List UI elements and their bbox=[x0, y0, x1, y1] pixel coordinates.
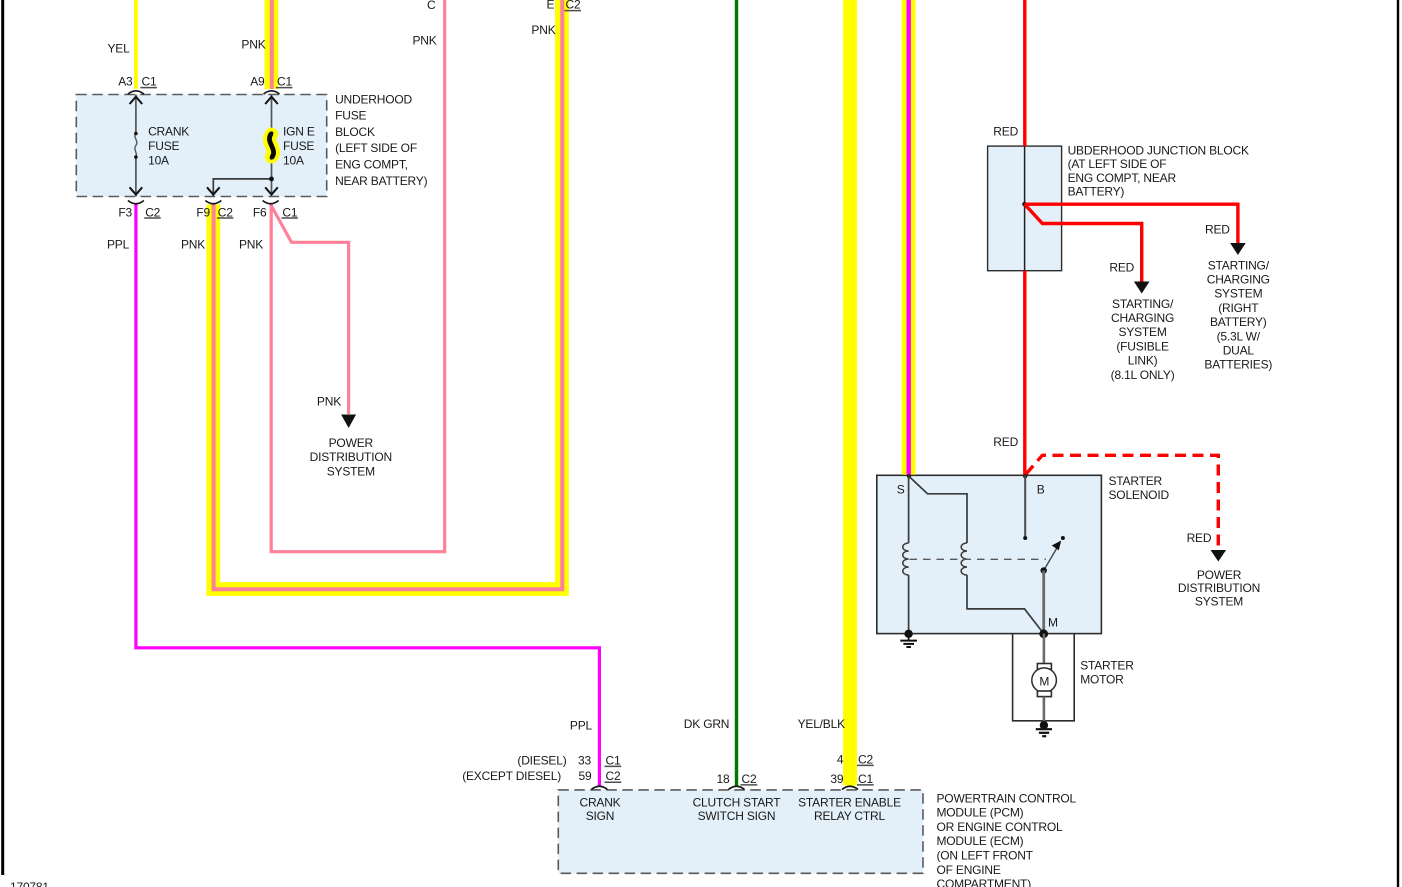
starter solenoid box bbox=[877, 475, 1102, 633]
svg-text:S: S bbox=[897, 482, 905, 496]
svg-text:PPL: PPL bbox=[107, 238, 130, 252]
solenoid switch pivot dot bbox=[1041, 567, 1047, 573]
svg-text:C2: C2 bbox=[742, 772, 757, 786]
svg-text:10A: 10A bbox=[148, 153, 169, 167]
svg-text:POWERTRAIN CONTROL: POWERTRAIN CONTROL bbox=[937, 791, 1077, 805]
svg-text:DK GRN: DK GRN bbox=[684, 717, 729, 731]
svg-text:C1: C1 bbox=[606, 753, 621, 767]
svg-text:(EXCEPT DIESEL): (EXCEPT DIESEL) bbox=[462, 769, 561, 783]
solenoid coil 2 wire to M bbox=[967, 575, 1044, 634]
wire PNK from F6 looping to top connector C bbox=[271, 0, 445, 552]
svg-text:SWITCH SIGN: SWITCH SIGN bbox=[698, 809, 776, 823]
svg-text:ENG COMPT, NEAR: ENG COMPT, NEAR bbox=[1068, 171, 1177, 185]
wire PNK from F6 to power distribution system bbox=[271, 205, 349, 414]
svg-text:COMPARTMENT): COMPARTMENT) bbox=[937, 877, 1032, 887]
svg-text:CHARGING: CHARGING bbox=[1207, 273, 1270, 287]
svg-text:F9: F9 bbox=[196, 205, 210, 219]
svg-text:STARTING/: STARTING/ bbox=[1112, 297, 1174, 311]
fuse IGN E bold fuse S-curve bbox=[269, 133, 273, 158]
wire RED branch to starting/charging system fusible link bbox=[1025, 204, 1142, 281]
fuse F3 arrow down bbox=[130, 187, 143, 194]
svg-text:STARTING/: STARTING/ bbox=[1208, 258, 1270, 272]
svg-text:A9: A9 bbox=[250, 75, 265, 89]
wire PNK highlighted from F9 looping to top (yellow highlight band) bbox=[213, 0, 562, 589]
wire PNK core from F9 looping to top bbox=[214, 0, 563, 589]
svg-text:F3: F3 bbox=[118, 205, 132, 219]
underline C1 A9 bbox=[276, 87, 293, 89]
svg-text:B: B bbox=[1037, 482, 1045, 496]
svg-text:MODULE (PCM): MODULE (PCM) bbox=[937, 806, 1024, 820]
solenoid coil 2 bbox=[961, 543, 967, 575]
solenoid coil 1 bbox=[903, 543, 909, 575]
svg-text:IGN E: IGN E bbox=[283, 125, 315, 139]
svg-text:F6: F6 bbox=[253, 205, 267, 219]
starter motor brush bottom bbox=[1037, 691, 1051, 697]
svg-text:(FUSIBLE: (FUSIBLE bbox=[1116, 339, 1169, 353]
svg-text:NEAR BATTERY): NEAR BATTERY) bbox=[335, 174, 428, 188]
fuse IGN E arrow down bbox=[265, 187, 278, 194]
junction nub at solenoid B terminal bbox=[1023, 474, 1027, 478]
svg-text:BATTERIES): BATTERIES) bbox=[1204, 358, 1272, 372]
branch arrow down at F9 bbox=[207, 187, 220, 194]
svg-text:STARTER ENABLE: STARTER ENABLE bbox=[798, 796, 901, 810]
solenoid mechanical linkage dashed line bbox=[910, 558, 1047, 560]
svg-text:MODULE (ECM): MODULE (ECM) bbox=[937, 834, 1024, 848]
svg-text:FUSE: FUSE bbox=[283, 139, 314, 153]
svg-text:ENG COMPT,: ENG COMPT, bbox=[335, 158, 408, 172]
svg-text:OR ENGINE CONTROL: OR ENGINE CONTROL bbox=[937, 820, 1063, 834]
connector cup F9 bbox=[205, 201, 221, 204]
svg-text:170781: 170781 bbox=[10, 880, 49, 887]
wire PPL core to starter solenoid S bbox=[907, 0, 911, 475]
starter motor brush top bbox=[1037, 664, 1051, 670]
starter motor feed wire bbox=[1043, 634, 1046, 664]
svg-text:LINK): LINK) bbox=[1128, 354, 1158, 368]
svg-text:C1: C1 bbox=[858, 772, 873, 786]
connector cap PCM starter enable pin 39 bbox=[842, 786, 858, 789]
connector cup F3 bbox=[128, 201, 144, 204]
fuse IGN E highlighted fuse symbol yellow halo bbox=[270, 134, 274, 157]
wire RED dashed branch to power distribution system bbox=[1026, 455, 1218, 550]
svg-text:C2: C2 bbox=[145, 205, 160, 219]
svg-text:RED: RED bbox=[1109, 261, 1134, 275]
svg-text:C2: C2 bbox=[606, 769, 621, 783]
svg-text:RELAY CTRL: RELAY CTRL bbox=[814, 809, 885, 823]
fuse IGN E element stem and arrows bbox=[271, 95, 273, 197]
underline C2 top bbox=[565, 10, 582, 12]
underhood fuse block box bbox=[76, 95, 326, 197]
svg-text:18: 18 bbox=[717, 772, 730, 786]
svg-text:RED: RED bbox=[1205, 223, 1230, 237]
svg-text:RED: RED bbox=[993, 435, 1018, 449]
svg-text:RED: RED bbox=[1187, 531, 1212, 545]
junction dot in junction block bbox=[1022, 202, 1027, 207]
solenoid coil 1 to ground bbox=[908, 575, 910, 634]
PCM module box bbox=[558, 790, 923, 873]
internal branch wire from IGN E fuse to F9 bbox=[213, 179, 271, 197]
svg-text:SYSTEM: SYSTEM bbox=[327, 464, 375, 478]
arrow to power distribution system (red) bbox=[1211, 550, 1227, 562]
svg-text:POWER: POWER bbox=[329, 436, 374, 450]
svg-text:FUSE: FUSE bbox=[148, 139, 179, 153]
wire RED from junction block to starter solenoid B bbox=[1023, 271, 1026, 475]
svg-text:RED: RED bbox=[993, 125, 1018, 139]
svg-text:CRANK: CRANK bbox=[579, 796, 620, 810]
wire YEL/BLK highlighted to PCM starter enable relay ctrl bbox=[843, 0, 857, 786]
svg-text:UNDERHOOD: UNDERHOOD bbox=[335, 92, 412, 106]
svg-text:PNK: PNK bbox=[181, 238, 205, 252]
svg-text:UBDERHOOD JUNCTION BLOCK: UBDERHOOD JUNCTION BLOCK bbox=[1068, 144, 1249, 158]
svg-text:4: 4 bbox=[837, 752, 844, 766]
svg-text:C2: C2 bbox=[858, 752, 873, 766]
svg-text:DISTRIBUTION: DISTRIBUTION bbox=[310, 450, 392, 464]
underhood junction block box bbox=[988, 146, 1062, 271]
solenoid M wire bbox=[1042, 571, 1045, 634]
underline C1 A3 bbox=[140, 87, 157, 89]
starter motor ground dot bbox=[1040, 721, 1048, 729]
svg-text:(RIGHT: (RIGHT bbox=[1218, 301, 1259, 315]
svg-text:PNK: PNK bbox=[317, 395, 341, 409]
svg-text:A3: A3 bbox=[118, 75, 133, 89]
border frame right edge bbox=[1397, 0, 1399, 887]
junction dot at IGN E fuse output bbox=[269, 177, 274, 182]
underline C2 F9 bbox=[217, 217, 233, 219]
svg-text:C2: C2 bbox=[218, 205, 233, 219]
connector cap A9 bbox=[264, 91, 280, 94]
svg-text:(ON LEFT FRONT: (ON LEFT FRONT bbox=[937, 849, 1034, 863]
arrow to starting/charging system fusible link bbox=[1134, 282, 1150, 294]
svg-text:STARTER: STARTER bbox=[1109, 474, 1163, 488]
svg-text:C2: C2 bbox=[566, 0, 581, 12]
svg-text:SYSTEM: SYSTEM bbox=[1119, 325, 1167, 339]
connector cap A3 bbox=[128, 91, 144, 94]
wire RED from top to junction block bbox=[1023, 0, 1026, 146]
ground symbol below starter motor bbox=[1036, 729, 1052, 736]
svg-text:MOTOR: MOTOR bbox=[1080, 673, 1124, 687]
svg-text:BATTERY): BATTERY) bbox=[1210, 315, 1267, 329]
svg-text:39: 39 bbox=[830, 772, 843, 786]
svg-text:SIGN: SIGN bbox=[586, 809, 615, 823]
wire RED branch to starting/charging system right battery bbox=[1025, 204, 1238, 243]
svg-text:(8.1L ONLY): (8.1L ONLY) bbox=[1111, 368, 1175, 382]
svg-text:PNK: PNK bbox=[531, 23, 555, 37]
fuse IGN E arrow up bbox=[265, 97, 278, 104]
fuse F3 arrow up bbox=[130, 97, 143, 104]
svg-text:(5.3L W/: (5.3L W/ bbox=[1217, 329, 1261, 343]
arrow to power distribution system (pnk) bbox=[341, 415, 356, 429]
svg-text:M: M bbox=[1039, 674, 1049, 688]
starter motor case outline bbox=[1013, 634, 1075, 721]
svg-text:E: E bbox=[547, 0, 555, 12]
junction nub at solenoid S terminal bbox=[907, 474, 911, 478]
solenoid M terminal dot bbox=[1039, 629, 1048, 638]
svg-text:SOLENOID: SOLENOID bbox=[1109, 488, 1170, 502]
svg-text:BLOCK: BLOCK bbox=[335, 125, 375, 139]
svg-text:PNK: PNK bbox=[241, 38, 265, 52]
solenoid pull-in coil wire from S bbox=[908, 475, 910, 543]
svg-text:YEL: YEL bbox=[108, 42, 131, 56]
wire DK GRN to PCM clutch start switch sign bbox=[735, 0, 738, 786]
underline C1 F6 bbox=[282, 217, 298, 219]
wire PNK core to fuse A9 bbox=[270, 0, 274, 89]
svg-text:YEL/BLK: YEL/BLK bbox=[798, 717, 845, 731]
svg-text:STARTER: STARTER bbox=[1080, 659, 1134, 673]
svg-text:C: C bbox=[427, 0, 436, 12]
svg-text:(DIESEL): (DIESEL) bbox=[517, 753, 566, 767]
underline C2 F3 bbox=[144, 217, 160, 219]
wire through junction block (black) bbox=[1024, 146, 1026, 271]
svg-text:(AT LEFT SIDE OF: (AT LEFT SIDE OF bbox=[1068, 157, 1167, 171]
svg-text:DISTRIBUTION: DISTRIBUTION bbox=[1178, 581, 1260, 595]
wire PNK highlighted to fuse A9 (yellow highlight band) bbox=[264, 0, 278, 89]
solenoid B contact dot bbox=[1023, 536, 1027, 540]
svg-text:CRANK: CRANK bbox=[148, 125, 189, 139]
svg-text:SYSTEM: SYSTEM bbox=[1195, 595, 1243, 609]
connector cap PCM clutch start pin 18 bbox=[729, 786, 745, 789]
solenoid B contact stem bbox=[1024, 475, 1026, 536]
svg-text:C1: C1 bbox=[277, 75, 292, 89]
svg-text:C1: C1 bbox=[142, 75, 157, 89]
svg-text:10A: 10A bbox=[283, 153, 304, 167]
svg-text:SYSTEM: SYSTEM bbox=[1214, 287, 1262, 301]
wire YEL to fuse A3 bbox=[134, 0, 138, 89]
arrow to starting/charging system right battery bbox=[1230, 243, 1246, 255]
connector cup F6 bbox=[263, 201, 279, 204]
solenoid switch blade bbox=[1044, 546, 1058, 570]
svg-text:POWER: POWER bbox=[1197, 568, 1242, 582]
svg-text:33: 33 bbox=[578, 753, 591, 767]
svg-text:OF ENGINE: OF ENGINE bbox=[937, 863, 1001, 877]
wire PPL highlighted to starter solenoid S (yellow highlight band) bbox=[902, 0, 916, 475]
fuse F3 wavy fuse symbol bbox=[135, 134, 137, 158]
solenoid switch fixed contact dot bbox=[1061, 536, 1065, 540]
fuse F3 CRANK FUSE element stem and arrows bbox=[135, 95, 137, 197]
svg-text:FUSE: FUSE bbox=[335, 109, 366, 123]
solenoid switch blade arrowhead bbox=[1052, 541, 1062, 551]
svg-text:CHARGING: CHARGING bbox=[1111, 311, 1174, 325]
solenoid coil ground dot bbox=[904, 630, 912, 638]
svg-text:PNK: PNK bbox=[413, 34, 437, 48]
svg-text:DUAL: DUAL bbox=[1223, 344, 1255, 358]
starter motor ground wire bbox=[1043, 697, 1046, 725]
svg-text:(LEFT SIDE OF: (LEFT SIDE OF bbox=[335, 141, 417, 155]
svg-text:C1: C1 bbox=[282, 205, 297, 219]
solenoid hold-in coil branch wire bbox=[909, 476, 967, 543]
svg-text:PNK: PNK bbox=[239, 238, 263, 252]
border frame left edge bbox=[1, 0, 4, 875]
starter motor armature circle bbox=[1032, 668, 1057, 693]
svg-text:CLUTCH START: CLUTCH START bbox=[693, 796, 782, 810]
svg-text:M: M bbox=[1048, 616, 1058, 630]
svg-text:59: 59 bbox=[579, 769, 592, 783]
svg-text:BATTERY): BATTERY) bbox=[1068, 184, 1125, 198]
ground symbol below solenoid bbox=[900, 634, 917, 647]
connector cap PCM crank sign pin 59 bbox=[591, 786, 607, 789]
svg-text:PPL: PPL bbox=[570, 718, 593, 732]
wire PPL from F3 to PCM CRANK SIGN bbox=[136, 205, 600, 786]
